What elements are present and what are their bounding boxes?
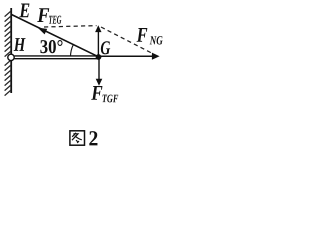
force arrow F_NG (right) [99, 55, 153, 57]
hinge circle at H [8, 54, 14, 60]
svg-text:TGF: TGF [102, 93, 119, 105]
wall hatching [5, 11, 11, 96]
svg-text:G: G [100, 38, 110, 59]
angle arc at G [71, 45, 74, 57]
caption glyph TU (figure) drawn as strokes [70, 131, 85, 145]
svg-text:TEG: TEG [48, 13, 61, 27]
dashed horizontal construction line [44, 26, 97, 27]
svg-text:2: 2 [88, 126, 98, 150]
rod HG (double line) [14, 55, 99, 57]
svg-text:NG: NG [149, 33, 163, 47]
svg-text:H: H [13, 35, 26, 56]
vertical component arrow (up) [97, 31, 99, 57]
node G dot [96, 54, 102, 60]
svg-text:F: F [136, 23, 148, 47]
svg-text:30°: 30° [40, 37, 64, 58]
tension arrowhead F_TEG on rope [38, 28, 48, 35]
svg-text:E: E [19, 0, 31, 22]
wall vertical line [10, 8, 12, 93]
dashed hypotenuse construction line [101, 27, 153, 54]
force arrow F_TGF (down) [98, 57, 100, 79]
rope EG [12, 15, 99, 57]
